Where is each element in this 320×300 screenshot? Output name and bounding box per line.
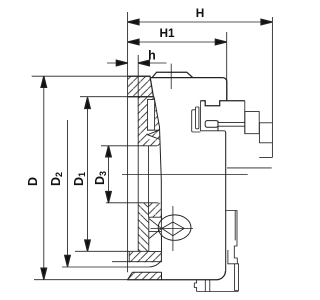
center axis line <box>122 174 248 176</box>
T-slot cavity (white) <box>149 217 162 251</box>
square socket diamond <box>162 222 184 236</box>
spigot top edge <box>259 122 272 124</box>
backplate back face <box>244 101 246 134</box>
svg-text:D: D <box>26 177 40 186</box>
T-slot lip line / D2 extension <box>62 262 160 267</box>
screw head bar <box>205 121 218 131</box>
bottom line <box>197 291 239 293</box>
back recess line <box>227 167 272 169</box>
socket crosshair horizontal <box>151 227 194 229</box>
dimension D3 vertical <box>106 146 112 203</box>
back foot block <box>235 264 239 291</box>
svg-text:H: H <box>196 6 205 20</box>
screw head circles union <box>158 215 191 240</box>
body bottom face with rounded corner <box>127 271 225 280</box>
foot left step <box>228 250 235 264</box>
dimension D1 vertical <box>85 97 91 251</box>
slot edge through ellipse <box>160 215 162 241</box>
bolt slot inner <box>196 107 199 129</box>
lower hatched band (body slot section) <box>138 203 161 217</box>
jaw hatched step 2 <box>138 97 162 263</box>
backplate left face <box>199 101 201 131</box>
jaw screw chevron <box>148 130 160 139</box>
channel inner line <box>234 211 236 241</box>
dimension H <box>128 19 272 25</box>
back channel wall <box>226 211 238 264</box>
nut block <box>245 112 259 134</box>
spigot bottom edge <box>259 157 272 159</box>
extension line D1 bottom + slot band edge <box>75 250 161 252</box>
jaw guide belt verticals <box>148 146 150 217</box>
spigot front edge <box>258 123 260 143</box>
dimension H1 <box>128 39 227 45</box>
bottom mount notch <box>194 280 196 292</box>
extension line back spigot vertical <box>271 17 273 158</box>
jaw hatched step 1 (top) <box>128 76 154 97</box>
svg-text:H1: H1 <box>159 26 175 40</box>
socket crosshair vertical <box>172 206 174 251</box>
extension line D3 bottom + lower band edge <box>106 202 158 204</box>
extension line h right / jaw step2 face <box>137 55 139 252</box>
extension line D bottom (merges with body bottom face) <box>34 279 127 281</box>
jaw screw slot (white) <box>148 100 155 131</box>
dimension h <box>107 60 167 66</box>
screw narrow shank <box>218 123 245 127</box>
extension line front face (jaw) vertical <box>127 12 129 272</box>
extension line H1 / body back edge <box>226 32 228 101</box>
spigot mid line <box>259 142 272 144</box>
bottom rim hatched band <box>127 272 161 280</box>
hatched band D1-D2 <box>129 251 161 262</box>
band1 bottom edge <box>112 261 161 263</box>
face boss trapezoid <box>152 72 193 77</box>
T-slot step line <box>148 231 161 233</box>
dimension D vertical <box>41 76 47 279</box>
extension line D1 top + jaw step edge <box>80 96 153 98</box>
svg-text:h: h <box>148 49 156 63</box>
backplate bottom edge <box>200 131 225 133</box>
extension line D top + jaw top face <box>32 75 151 77</box>
dimension D2 vertical <box>65 120 71 267</box>
boss centerline cross <box>170 64 172 89</box>
T-slot chevron lines <box>149 218 162 239</box>
body top face and rounded back corner <box>150 78 227 101</box>
lower hatched sliver left of T-slot <box>138 217 149 251</box>
body back face below center <box>225 133 227 272</box>
extension line D3 top + jaw mid edge <box>101 145 157 147</box>
back shoulder line with notch <box>201 101 245 106</box>
bolt slot outer bracket <box>192 110 201 132</box>
